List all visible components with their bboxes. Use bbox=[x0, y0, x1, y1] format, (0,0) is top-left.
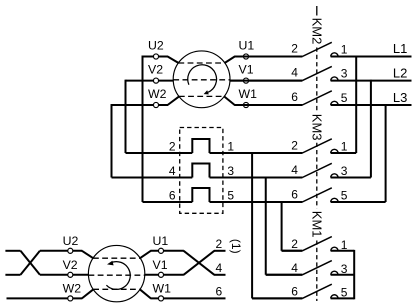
wire U1 out of motor bbox=[225, 57, 235, 64]
wire stub out 2 bbox=[214, 250, 226, 252]
motor M2 rotation arrow bbox=[188, 65, 217, 93]
svg-text:2: 2 bbox=[216, 237, 223, 251]
wire W1 lead (lower) bbox=[150, 297, 225, 299]
wire row 6-5 right bbox=[210, 201, 303, 203]
svg-text:6: 6 bbox=[216, 285, 223, 299]
terminal V2 bbox=[153, 78, 158, 83]
svg-text:KM1: KM1 bbox=[309, 211, 324, 238]
svg-text:V2: V2 bbox=[148, 63, 163, 77]
wire W1 out of motor (lower) bbox=[140, 289, 151, 298]
svg-text:2: 2 bbox=[291, 139, 298, 153]
wire L3 bbox=[331, 104, 412, 106]
wire W2 into motor (lower) bbox=[82, 289, 94, 298]
terminal W1 bbox=[243, 102, 248, 107]
wire drop node A bbox=[251, 153, 253, 298]
motor M1 winding phase dashed line (W) bbox=[93, 288, 140, 290]
wire U2 into motor (lower) bbox=[82, 251, 93, 258]
svg-text:4: 4 bbox=[291, 163, 298, 177]
motor M2 winding phase dashed line (U) bbox=[178, 62, 224, 64]
svg-text:4: 4 bbox=[291, 66, 298, 80]
svg-text:5: 5 bbox=[341, 189, 348, 203]
svg-text:6: 6 bbox=[291, 90, 298, 104]
wire W2 lead bbox=[112, 104, 169, 106]
contactor linkage dashed line (KM1) bbox=[316, 241, 318, 302]
contactor KM3 contact 4-3 bbox=[210, 163, 339, 177]
wire W2 drop bbox=[111, 104, 113, 177]
svg-text:2: 2 bbox=[169, 140, 176, 154]
link jumper 4-3 bbox=[192, 164, 209, 178]
wire KM1 row3 out bbox=[331, 297, 355, 299]
link jumper 6-5 bbox=[192, 188, 209, 202]
terminal V1 (lower) bbox=[158, 272, 163, 277]
svg-text:L1: L1 bbox=[393, 41, 407, 56]
svg-text:6: 6 bbox=[169, 189, 176, 203]
wire KM3 row2 out bbox=[331, 177, 371, 179]
wire KM1 row2 out bbox=[331, 274, 355, 276]
wire row 4-3 right bbox=[210, 177, 303, 179]
svg-text:1: 1 bbox=[227, 140, 234, 154]
motor M1 winding phase dashed line (V) bbox=[89, 274, 145, 276]
svg-text:4: 4 bbox=[169, 164, 176, 178]
wire W1 lead bbox=[234, 104, 302, 106]
svg-text:5: 5 bbox=[341, 91, 348, 105]
svg-text:1: 1 bbox=[341, 238, 348, 252]
svg-text:KM3: KM3 bbox=[309, 114, 324, 141]
wire KM1 row3 feed bbox=[252, 297, 302, 299]
motor M2 winding phase dashed line (W) bbox=[179, 95, 224, 97]
svg-text:KM2: KM2 bbox=[309, 18, 324, 45]
wire KM1 star bus bbox=[353, 250, 355, 299]
terminal W1 (lower) bbox=[158, 296, 163, 301]
terminal U1 (lower) bbox=[158, 248, 163, 253]
wire row 6-5 left bbox=[143, 201, 193, 203]
wire crossover right b bbox=[184, 251, 215, 275]
wire drop node C bbox=[281, 202, 283, 251]
wire V1 lead bbox=[230, 80, 303, 82]
wire KM3 row1 out bbox=[331, 152, 357, 154]
svg-text:W1: W1 bbox=[239, 87, 258, 101]
wire U1 lead bbox=[234, 56, 302, 58]
wire W2 into motor bbox=[168, 96, 180, 105]
motor M1 rotation arrow bbox=[106, 262, 130, 290]
wire L2 bbox=[331, 80, 412, 82]
wire bus L2 to KM3 bbox=[370, 80, 372, 178]
motor M2 (pole-changing winding, upper) bbox=[173, 51, 230, 108]
svg-text:2: 2 bbox=[291, 41, 298, 55]
svg-text:3: 3 bbox=[341, 164, 348, 178]
motor M1 winding phase dashed line (U) bbox=[93, 257, 140, 259]
wire U2 lead bbox=[143, 56, 169, 58]
wire L1 bbox=[331, 56, 412, 58]
motor M1 (pole-changing winding, lower) bbox=[88, 245, 144, 301]
wire V1 lead (lower) bbox=[145, 274, 184, 276]
svg-text:4: 4 bbox=[291, 261, 298, 275]
svg-text:W2: W2 bbox=[63, 282, 82, 296]
wire row 2-1 left bbox=[126, 152, 193, 154]
terminal V1 bbox=[243, 78, 248, 83]
svg-text:1: 1 bbox=[341, 42, 348, 56]
svg-text:(1): (1) bbox=[229, 239, 243, 254]
wire V2 lead (lower) bbox=[40, 274, 89, 276]
wire U2 drop bbox=[142, 56, 144, 202]
svg-text:3: 3 bbox=[227, 164, 234, 178]
contactor KM3 contact 2-1 bbox=[210, 139, 339, 153]
svg-text:U1: U1 bbox=[153, 234, 169, 248]
wire stub out 4 bbox=[214, 274, 226, 276]
svg-text:W1: W1 bbox=[153, 282, 172, 296]
wire U1 lead (lower) bbox=[150, 250, 184, 252]
contactor KM1 contact 6-5 bbox=[252, 284, 338, 298]
wire KM1 row1 out bbox=[331, 250, 355, 252]
wire U1 out of motor (lower) bbox=[140, 251, 151, 258]
wire W1 out of motor bbox=[224, 96, 235, 105]
contactor linkage dashed line (KM3) bbox=[316, 143, 318, 209]
contactor KM1 contact 4-3 bbox=[266, 261, 338, 275]
wire KM1 row1 feed bbox=[282, 250, 303, 252]
wire U2 lead (lower) bbox=[40, 250, 82, 252]
svg-text:V1: V1 bbox=[239, 63, 254, 77]
wire W2 lead (lower) bbox=[7, 297, 83, 299]
svg-text:W2: W2 bbox=[148, 87, 167, 101]
wire V2 drop bbox=[125, 80, 127, 153]
svg-text:U2: U2 bbox=[63, 234, 79, 248]
wire crossover left b bbox=[21, 251, 40, 275]
wire stub L-in lower bbox=[5, 274, 20, 276]
wire crossover right a bbox=[184, 251, 215, 275]
svg-text:4: 4 bbox=[216, 261, 223, 275]
wire KM3 row3 out bbox=[331, 201, 386, 203]
svg-text:U2: U2 bbox=[148, 38, 164, 52]
contactor linkage dashed line (KM2) bbox=[316, 48, 318, 113]
svg-text:3: 3 bbox=[341, 67, 348, 81]
terminal U2 (lower) bbox=[68, 248, 73, 253]
wire row 4-3 left bbox=[112, 177, 193, 179]
terminal link box X1 (dashed outline) bbox=[180, 128, 223, 214]
wire U2 into motor bbox=[168, 57, 179, 64]
wire row 2-1 right bbox=[210, 152, 303, 154]
terminal W2 bbox=[153, 102, 158, 107]
svg-text:5: 5 bbox=[227, 189, 234, 203]
wire KM1 row2 feed bbox=[266, 274, 303, 276]
contactor linkage dashed line (top) bbox=[316, 6, 318, 16]
svg-text:6: 6 bbox=[291, 188, 298, 202]
contactor KM2 contact 2-1 bbox=[234, 42, 338, 56]
terminal U2 bbox=[153, 54, 158, 59]
svg-text:L3: L3 bbox=[393, 90, 407, 105]
svg-text:2: 2 bbox=[291, 237, 298, 251]
terminal V2 (lower) bbox=[68, 272, 73, 277]
contactor KM2 contact 6-5 bbox=[234, 91, 338, 105]
wire drop node B bbox=[265, 178, 267, 275]
contactor KM2 contact 4-3 bbox=[230, 66, 338, 80]
svg-text:V1: V1 bbox=[153, 258, 168, 272]
svg-text:6: 6 bbox=[291, 285, 298, 299]
svg-text:V2: V2 bbox=[63, 258, 78, 272]
contactor KM3 contact 6-5 bbox=[210, 188, 339, 202]
svg-text:L2: L2 bbox=[393, 66, 407, 81]
svg-text:1: 1 bbox=[341, 140, 348, 154]
svg-text:U1: U1 bbox=[239, 38, 255, 52]
motor M2 winding phase dashed line (V) bbox=[173, 79, 230, 81]
wire bus L3 to KM3 bbox=[385, 104, 387, 202]
terminal U1 bbox=[243, 54, 248, 59]
contactor KM1 contact 2-1 bbox=[282, 237, 338, 251]
terminal W2 (lower) bbox=[68, 296, 73, 301]
wire crossover left a bbox=[21, 251, 40, 275]
wire bus L1 to KM3 bbox=[355, 56, 357, 153]
wire stub L-in upper bbox=[5, 250, 20, 252]
link jumper 2-1 bbox=[192, 139, 209, 153]
wire V2 lead bbox=[126, 80, 174, 82]
